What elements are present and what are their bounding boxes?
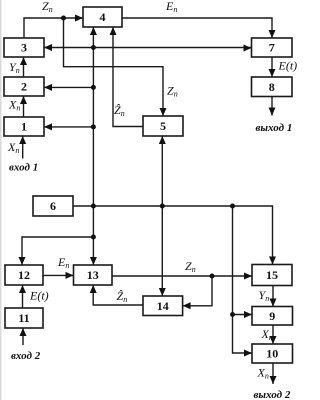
svg-text:вход 1: вход 1 [9, 162, 38, 174]
svg-text:9: 9 [269, 309, 275, 323]
svg-text:выход 1: выход 1 [256, 122, 293, 134]
svg-text:E(t): E(t) [278, 59, 298, 73]
svg-text:11: 11 [18, 311, 29, 325]
svg-text:5: 5 [160, 119, 166, 133]
svg-text:4: 4 [100, 10, 106, 24]
svg-text:вход 2: вход 2 [11, 350, 41, 362]
svg-text:1: 1 [21, 120, 27, 134]
svg-text:выход 2: выход 2 [254, 389, 291, 400]
svg-text:14: 14 [157, 299, 169, 313]
svg-text:7: 7 [269, 41, 275, 55]
svg-text:3: 3 [21, 41, 27, 55]
svg-text:8: 8 [269, 80, 275, 94]
svg-text:2: 2 [21, 80, 27, 94]
svg-text:12: 12 [18, 268, 30, 282]
svg-text:E(t): E(t) [29, 289, 49, 303]
svg-text:6: 6 [50, 199, 56, 213]
svg-text:15: 15 [266, 268, 278, 282]
svg-text:10: 10 [266, 347, 278, 361]
svg-text:13: 13 [87, 268, 99, 282]
